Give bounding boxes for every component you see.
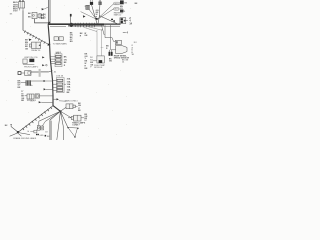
main harness horizontal trunk — [48, 22, 50, 25]
connector block 2 — [56, 78, 64, 93]
pin labels 24 25 — [43, 13, 46, 19]
twin vertical wires — [47, 0, 49, 23]
wires into block 2 — [53, 81, 57, 91]
caption below box B — [72, 121, 86, 126]
svg-text:BK/G: BK/G — [114, 9, 119, 11]
svg-text:V/GY: V/GY — [13, 11, 18, 13]
hub junction — [59, 110, 61, 112]
wire color labels between wires — [96, 10, 100, 18]
wire down from top-left connector — [22, 10, 24, 30]
box C — [97, 56, 104, 63]
wire label columns left of box C — [85, 53, 89, 69]
hatched dark box — [21, 80, 31, 85]
striped connector top — [99, 0, 102, 5]
harness tick marks — [75, 23, 94, 28]
caption below box C — [94, 65, 105, 69]
BK labels pair — [28, 13, 31, 19]
branch wire to sensor box — [105, 38, 115, 42]
triangle wire run — [68, 128, 78, 137]
svg-text:BK/R: BK/R — [30, 101, 35, 103]
dark module top — [90, 2, 93, 5]
arrow branch y89 — [44, 88, 46, 90]
small box with code — [38, 14, 40, 18]
leader arrow to wires — [42, 8, 45, 10]
connector box top-left — [19, 0, 25, 10]
wire stub above bulge — [70, 14, 72, 17]
svg-text:10A: 10A — [67, 86, 71, 89]
dark squares bottom — [36, 134, 37, 135]
harness bulge connector — [70, 23, 73, 27]
branch stubs right — [104, 25, 106, 38]
small labels — [120, 6, 124, 10]
wires into block 1 — [50, 57, 55, 64]
wire to D-shape — [111, 49, 122, 51]
left labels — [106, 46, 109, 50]
svg-text:FRONT LAMP 2: FRONT LAMP 2 — [24, 65, 38, 68]
twin verticals to bottom edge — [49, 120, 51, 140]
hub junction into harness — [95, 18, 99, 24]
box A — [66, 104, 78, 109]
labels right of box A — [78, 103, 82, 112]
small switch component — [32, 12, 41, 18]
D-shape sensor body — [116, 45, 127, 53]
svg-text:15A: 15A — [67, 83, 71, 86]
end connector of harness — [120, 18, 128, 24]
ground junction — [17, 131, 19, 133]
svg-text:NO: NO — [134, 42, 137, 44]
wire right with arrow — [31, 80, 43, 82]
wire color label columns below harness — [70, 33, 74, 43]
tiny labels on gray wires — [96, 30, 103, 33]
svg-text:10: 10 — [132, 54, 134, 56]
trunk down from corner — [48, 25, 60, 111]
svg-text:15A: 15A — [67, 80, 71, 83]
arrows left of block 1 — [42, 56, 44, 58]
svg-text:MODULE: MODULE — [94, 67, 103, 69]
gray wires to fuel pump box — [84, 27, 97, 56]
svg-text:FRAME GROUND LEADS: FRAME GROUND LEADS — [13, 137, 37, 140]
labels below terminals — [109, 58, 113, 62]
fan wires from hub — [39, 107, 72, 140]
wire label column left of relay — [25, 40, 29, 51]
svg-text:MAIN CONN 4: MAIN CONN 4 — [65, 99, 79, 102]
tiny terminal squares — [111, 19, 113, 20]
wire labels column — [18, 80, 22, 89]
arrow branch y102 — [39, 101, 42, 103]
wire labels column 2 — [21, 91, 25, 102]
box B — [68, 115, 84, 121]
dark component top right — [120, 0, 124, 4]
coil component with dark box — [23, 59, 34, 65]
labels right of block 2 — [67, 78, 71, 95]
two fuse boxes — [54, 37, 58, 41]
sensor box — [115, 40, 121, 44]
connector 3-cell — [25, 94, 34, 99]
hatched harness run top-left — [23, 30, 47, 44]
diagonal from hub to right harness — [100, 16, 118, 24]
relay component — [29, 42, 40, 48]
svg-text:MAIN 10: MAIN 10 — [114, 14, 121, 17]
pin numbers right of end connector — [129, 18, 132, 25]
svg-text:GND: GND — [39, 135, 44, 137]
ground legs — [10, 133, 30, 137]
svg-text:TO MAIN HARN: TO MAIN HARN — [53, 42, 68, 45]
row: bordered square + open box — [18, 71, 31, 76]
second dark cluster — [120, 10, 124, 13]
leader labels — [114, 2, 120, 5]
hatched run from trunk bend to ground junction — [18, 106, 53, 132]
svg-text:CONN 7: CONN 7 — [72, 124, 79, 126]
svg-text:15A: 15A — [67, 88, 71, 91]
hub knot — [96, 18, 98, 20]
stub up-left with terminal — [11, 124, 18, 131]
arrow pointing left to relay — [39, 44, 41, 46]
horn box branch — [35, 94, 53, 98]
arrow on wire into hub — [83, 15, 86, 17]
leader lines to labels top-right — [98, 4, 114, 19]
wire right through gray housing to trunk — [39, 69, 41, 77]
svg-text:BN/G: BN/G — [114, 3, 119, 5]
arrowhead to ECM label — [48, 43, 51, 46]
arrow branch y99.5 — [53, 98, 56, 100]
terminal stems — [108, 50, 110, 52]
dash-4 mark — [123, 31, 126, 33]
caption two rows — [114, 12, 124, 17]
labels right of box B — [84, 114, 88, 122]
connector block 1 — [55, 53, 62, 67]
right text column — [132, 45, 134, 56]
lamp 1 — [36, 121, 40, 130]
dark marks lower — [122, 59, 129, 63]
arrowhead mid-run — [29, 39, 32, 41]
wire labels column (top-left connector) — [13, 2, 18, 12]
wires down to harness hub — [92, 5, 96, 18]
wire block2 to labels — [64, 83, 66, 85]
svg-text:RELAY 30: RELAY 30 — [31, 49, 40, 52]
dark terminal pair — [109, 52, 111, 56]
caption below D-shape — [114, 54, 130, 59]
wire from switch to trunk — [35, 19, 49, 23]
svg-text:o n: o n — [101, 47, 104, 49]
labels right of block 1 — [64, 57, 68, 67]
striped connector mid-left — [86, 5, 90, 9]
lamp 2 — [41, 121, 46, 130]
svg-text:30A: 30A — [67, 78, 71, 81]
paper texture dots — [5, 4, 131, 137]
